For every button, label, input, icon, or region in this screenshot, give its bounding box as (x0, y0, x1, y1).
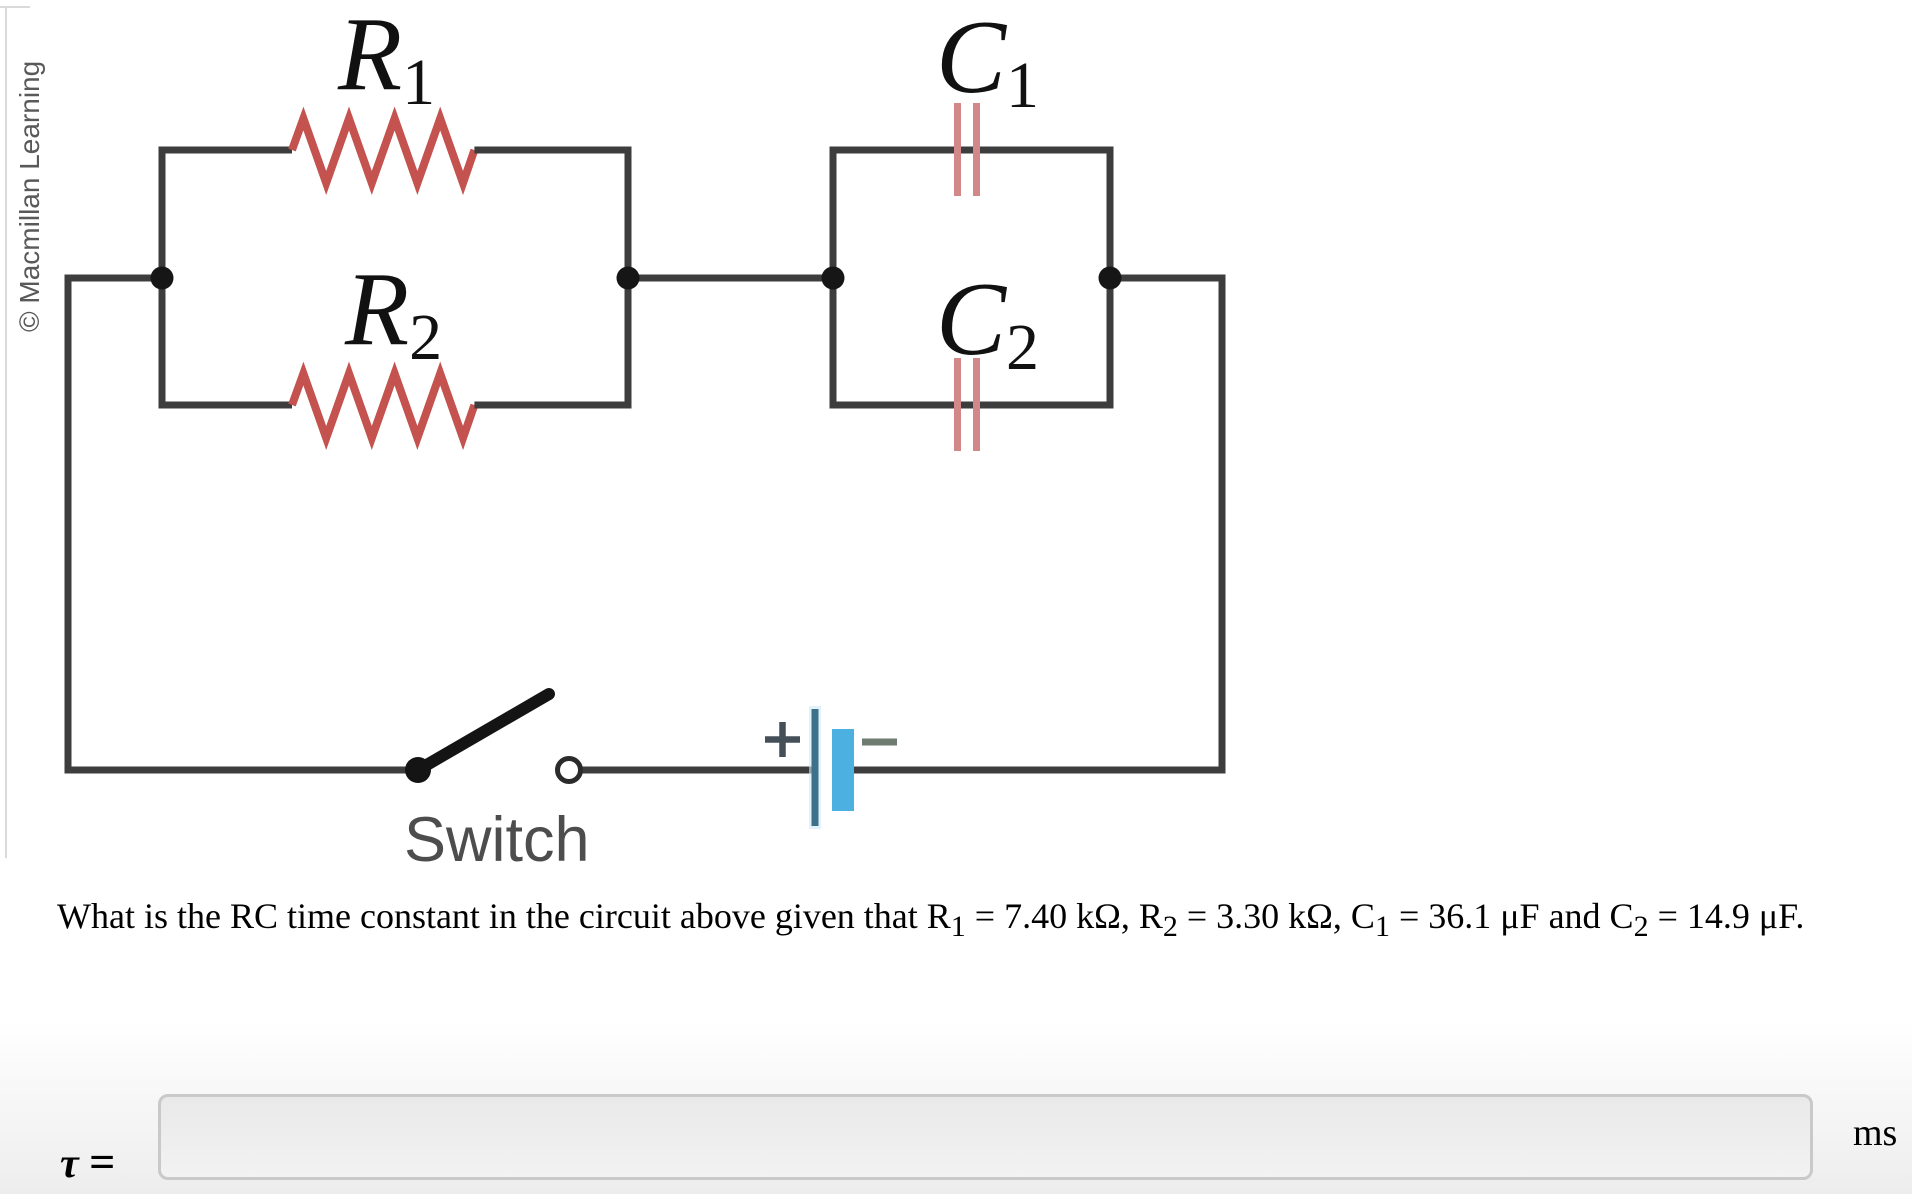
battery negative plate (short thick) (832, 729, 854, 811)
wire: top wire right segment from R1 (474, 147, 631, 154)
svg-text:C1: C1 (936, 0, 1039, 122)
wire: left outer vertical (65, 275, 72, 774)
svg-text:C2: C2 (936, 260, 1039, 384)
switch pivot dot (405, 757, 431, 783)
svg-text:R2: R2 (344, 250, 442, 374)
node C junction dot (822, 267, 845, 290)
bottom page gradient (0, 1020, 1912, 1194)
wire: bottom left horizontal to switch (65, 767, 419, 774)
capacitor C2 plates (958, 358, 977, 451)
wire: left stub to node A (65, 275, 163, 282)
node B junction dot (617, 267, 640, 290)
question text (57, 895, 1804, 944)
resistor R2 (292, 374, 474, 439)
node D junction dot (1099, 267, 1122, 290)
wire: bottom right horizontal from battery (854, 767, 1226, 774)
node A junction dot (151, 267, 174, 290)
battery minus sign (862, 739, 897, 746)
wire: switch to battery segment (580, 767, 812, 774)
wire: middle link node B to node C (628, 275, 833, 282)
wire: right outer vertical (1219, 275, 1226, 774)
wire: resistor box right vertical (625, 147, 632, 409)
svg-text:Switch: Switch (404, 805, 590, 875)
label tau = (60, 1135, 115, 1188)
watermark © Macmillan Learning (14, 61, 46, 332)
capacitor C1 plates (958, 103, 977, 196)
wire: resistor box left vertical (159, 147, 166, 409)
wire: right stub from node D (1110, 275, 1226, 282)
wire: bottom wire left segment to R2 (159, 402, 293, 409)
wire: capacitor box top horizontal (833, 147, 1110, 154)
switch open terminal circle (558, 759, 581, 782)
panel border left (5, 6, 7, 858)
label ms (1853, 1111, 1897, 1155)
wire: capacitor box right vertical (1107, 147, 1114, 409)
svg-text:R1: R1 (337, 0, 435, 119)
battery positive plate (long thin) (809, 706, 821, 829)
wire: bottom wire right segment from R2 (474, 402, 631, 409)
wire: top wire left segment to R1 (159, 147, 293, 154)
battery plus sign (765, 722, 800, 757)
wire: capacitor box bottom horizontal (833, 402, 1110, 409)
wire: capacitor box left vertical (830, 147, 837, 409)
resistor R1 (292, 119, 474, 184)
answer input box (158, 1094, 1813, 1180)
panel border top tick (0, 6, 30, 8)
switch lever (418, 694, 549, 770)
